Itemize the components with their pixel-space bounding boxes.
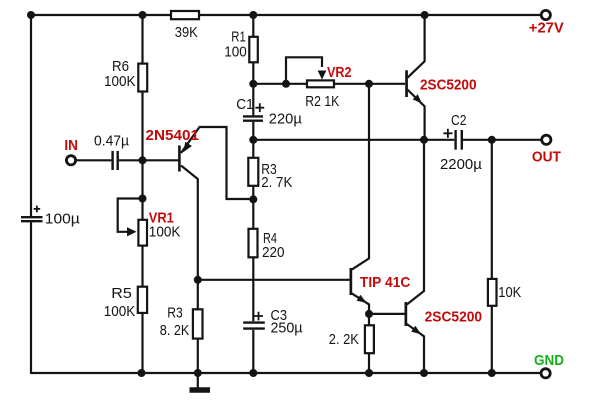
junction R5 bottom rail bbox=[138, 369, 146, 377]
wire left rail lower bbox=[30, 222, 32, 374]
resistor R5 100K bbox=[138, 287, 147, 313]
wire R5 bottom to ground rail bbox=[141, 313, 143, 373]
potentiometer VR2 body bbox=[307, 80, 334, 87]
junction 10K bottom rail bbox=[488, 369, 496, 377]
wire bottom 2SC5200 emitter to rail bbox=[407, 324, 424, 373]
junction R6 top on rail bbox=[139, 11, 147, 19]
plus sign C1 bbox=[255, 103, 264, 112]
svg-text:2SC5200: 2SC5200 bbox=[420, 77, 477, 94]
resistor 2.2K bbox=[365, 325, 374, 353]
VR2 wiper arrowhead bbox=[318, 71, 327, 80]
resistor R6 100K bbox=[138, 64, 147, 92]
junction VR2 output node bbox=[365, 80, 373, 88]
transistor Q1 2N5401 base bar bbox=[178, 146, 181, 172]
wire 2N5401 emitter route right and down bbox=[181, 127, 252, 199]
wire top rail right segment to +27V bbox=[199, 14, 541, 16]
svg-text:TIP 41C: TIP 41C bbox=[360, 275, 411, 291]
resistor R3 8.2K bbox=[193, 309, 203, 338]
wire C2 to OUT terminal bbox=[463, 139, 542, 141]
wire VR2 node down to TIP41C collector bbox=[352, 84, 369, 270]
svg-text:VR1: VR1 bbox=[149, 210, 174, 226]
svg-text:2200µ: 2200µ bbox=[440, 156, 482, 173]
svg-text:250µ: 250µ bbox=[271, 320, 303, 337]
wire VR1 bottom to R5 top bbox=[141, 246, 143, 287]
capacitor C 0.47µ plates bbox=[113, 151, 118, 170]
svg-text:GND: GND bbox=[534, 353, 564, 369]
resistor R3 2.7K bbox=[248, 158, 258, 186]
wire R1 top bbox=[252, 15, 254, 37]
junction 10K top node bbox=[488, 136, 496, 144]
resistor R1 100 bbox=[249, 37, 257, 63]
junction C1 bottom node bbox=[249, 136, 257, 144]
resistor 39K bbox=[171, 11, 199, 19]
potentiometer VR1 body bbox=[138, 220, 147, 246]
wire top 2SC5200 emitter down bbox=[408, 90, 425, 140]
wire R6 bottom to VR1 top bbox=[141, 92, 143, 221]
wire TIP41C emitter down to node bbox=[352, 293, 369, 325]
wire C3 bottom to rail bbox=[252, 330, 254, 373]
svg-text:2. 7K: 2. 7K bbox=[261, 174, 292, 191]
wire R1 node to VR2 left bbox=[253, 83, 307, 85]
junction TIP emitter node bbox=[365, 310, 373, 318]
wire IN to cap bbox=[76, 159, 112, 161]
junction C3 bottom rail bbox=[249, 369, 257, 377]
svg-text:220µ: 220µ bbox=[269, 110, 302, 127]
svg-text:+27V: +27V bbox=[529, 20, 564, 36]
terminal IN bbox=[66, 156, 75, 165]
junction emitter R3/R4 node bbox=[249, 195, 257, 203]
resistor 10K bbox=[488, 279, 497, 306]
wire left rail upper bbox=[30, 14, 32, 216]
wire R6/VR1/R5 vertical top bbox=[141, 15, 143, 64]
transistor Q3 emitter arrow bbox=[413, 94, 422, 103]
wire output node to C2 bbox=[424, 139, 454, 141]
plus sign 100µ bbox=[34, 206, 41, 213]
wire VR1 wiper loop bbox=[118, 199, 143, 232]
resistor R4 220 bbox=[249, 229, 258, 257]
plus sign C3 bbox=[254, 312, 263, 321]
junction VR1 wiper node bbox=[139, 195, 147, 203]
svg-text:C1: C1 bbox=[236, 96, 254, 113]
svg-text:R3: R3 bbox=[167, 304, 183, 321]
wire R3 2.7K bottom to R4 top bbox=[252, 186, 254, 229]
terminal +27V bbox=[541, 10, 550, 19]
svg-text:10K: 10K bbox=[498, 284, 521, 301]
wire ground stub bbox=[197, 373, 199, 388]
ground bbox=[190, 387, 211, 393]
svg-text:100K: 100K bbox=[104, 303, 136, 320]
wire C1 node to output node bbox=[253, 139, 424, 141]
svg-text:220: 220 bbox=[262, 244, 285, 261]
wire R3 8.2K bottom to rail bbox=[197, 339, 199, 373]
svg-text:100K: 100K bbox=[104, 73, 136, 90]
svg-text:VR2: VR2 bbox=[327, 65, 352, 81]
junction R1 bottom node bbox=[249, 80, 257, 88]
svg-text:R5: R5 bbox=[111, 285, 132, 302]
wire top 2SC5200 collector up bbox=[408, 15, 425, 78]
capacitor 100µ plates bbox=[21, 217, 43, 221]
junction collector top on rail bbox=[421, 11, 429, 19]
wire TIP41C base wire bbox=[198, 279, 350, 281]
capacitor C3 plates bbox=[243, 323, 265, 329]
wire R4 bottom to C3 top bbox=[252, 257, 254, 321]
svg-text:IN: IN bbox=[64, 138, 78, 154]
junction 2.2K bottom rail bbox=[365, 369, 373, 377]
junction R1 top on rail bbox=[249, 11, 257, 19]
transistor Q1 emitter arrow bbox=[183, 142, 192, 153]
wire TIP node to 2SC5200 base bbox=[369, 313, 405, 315]
wire 10K vertical top bbox=[491, 140, 493, 279]
transistor Q2 emitter arrow bbox=[357, 295, 367, 303]
VR1 wiper arrowhead bbox=[127, 227, 137, 236]
transistor Q3 top 2SC5200 base bar bbox=[405, 70, 408, 97]
transistor Q4 emitter arrow bbox=[411, 326, 421, 334]
wire node to 2.2K and rail bbox=[368, 353, 370, 373]
wire R1 bottom to C1 bbox=[252, 62, 254, 115]
transistor Q2 TIP41C base bar bbox=[350, 268, 353, 295]
svg-text:8. 2K: 8. 2K bbox=[160, 322, 190, 339]
junction output rail node bbox=[420, 136, 428, 144]
transistor Q4 bottom 2SC5200 base bar bbox=[405, 302, 408, 326]
wire bottom 2SC5200 collector up bbox=[407, 140, 424, 305]
wire VR2 right to top 2SC5200 base bbox=[334, 83, 405, 85]
plus sign C2 bbox=[443, 129, 452, 138]
junction emitter bottom rail bbox=[420, 369, 428, 377]
svg-text:100: 100 bbox=[224, 44, 247, 61]
capacitor C1 plates bbox=[243, 116, 263, 120]
junction collector/base drive node bbox=[194, 276, 202, 284]
wire top rail left segment bbox=[31, 14, 171, 16]
svg-text:OUT: OUT bbox=[532, 149, 561, 165]
wire cap to 2N5401 base bbox=[119, 159, 179, 161]
wire C1 bottom to R3 2.7K bbox=[252, 122, 254, 158]
junction VR2 wiper node bbox=[282, 80, 290, 88]
wire 10K bottom to rail bbox=[491, 306, 493, 373]
wire bottom rail bbox=[31, 372, 541, 374]
terminal OUT bbox=[542, 135, 551, 144]
junction top-left corner bbox=[27, 11, 35, 19]
capacitor C2 plates bbox=[456, 130, 462, 150]
junction ground symbol rail bbox=[194, 369, 202, 377]
svg-text:0.47µ: 0.47µ bbox=[94, 133, 129, 150]
svg-text:2. 2K: 2. 2K bbox=[329, 331, 359, 348]
wire VR2 wiper loop bbox=[286, 57, 322, 84]
junction input node bbox=[139, 156, 147, 164]
svg-text:2SC5200: 2SC5200 bbox=[425, 309, 483, 326]
svg-text:C2: C2 bbox=[451, 112, 467, 129]
svg-text:39K: 39K bbox=[175, 24, 198, 41]
terminal GND bbox=[541, 369, 550, 378]
svg-text:2N5401: 2N5401 bbox=[146, 127, 200, 144]
wire 2N5401 collector down to R3 top bbox=[181, 166, 198, 310]
svg-text:100µ: 100µ bbox=[45, 210, 80, 227]
svg-text:R2 1K: R2 1K bbox=[305, 93, 339, 110]
